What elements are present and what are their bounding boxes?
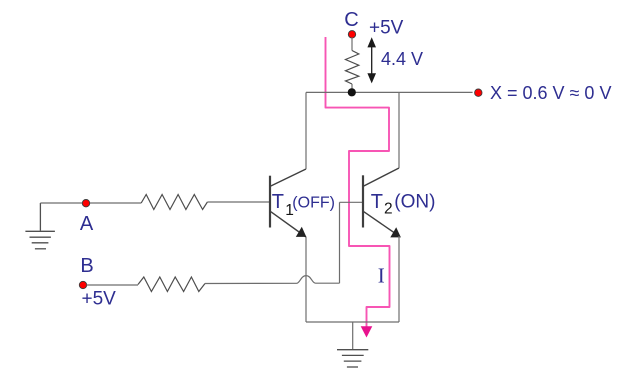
wire emitter rail bottom	[306, 321, 399, 323]
svg-text:B: B	[80, 255, 93, 277]
svg-text:T: T	[371, 191, 383, 213]
transistor T2 emitter arrow	[390, 227, 401, 237]
current arrow magenta into ground	[361, 326, 373, 337]
wire RB toward T2 base with hop over T1 emitter	[205, 276, 340, 284]
resistor RA	[141, 195, 207, 210]
resistor RC	[346, 51, 359, 85]
wire T1 collector vertical	[305, 92, 307, 169]
svg-text:I: I	[378, 264, 385, 288]
wire T2 collector vertical	[398, 92, 400, 168]
wire C to resistor RC	[351, 38, 353, 51]
wire ground stem bottom	[352, 322, 354, 349]
node A	[82, 200, 89, 207]
wire vertical up to T2 base	[339, 202, 341, 283]
svg-text:X = 0.6 V ≈ 0 V: X = 0.6 V ≈ 0 V	[490, 83, 611, 103]
wire pink current path from +5V through T2 to ground	[326, 37, 390, 330]
transistor T2 emitter diagonal	[364, 212, 399, 236]
svg-text:A: A	[80, 213, 94, 235]
wire T2 emitter vertical	[398, 236, 400, 322]
ground left	[25, 203, 55, 249]
node X	[475, 89, 482, 96]
transistor T2 collector diagonal	[364, 168, 399, 186]
svg-text:2: 2	[384, 201, 393, 218]
wire RA to T1 base	[207, 201, 269, 203]
node C	[348, 31, 355, 38]
svg-text:+5V: +5V	[82, 289, 117, 310]
wire RC to node X rail	[351, 84, 353, 92]
node B	[79, 281, 86, 288]
svg-text:4.4 V: 4.4 V	[381, 49, 423, 69]
svg-text:+5V: +5V	[369, 18, 404, 39]
transistor T1 base bar	[269, 176, 271, 228]
svg-text:C: C	[344, 9, 358, 31]
transistor T1 collector diagonal	[271, 169, 306, 186]
transistor T2 base bar	[362, 175, 364, 227]
wire T1 emitter vertical	[305, 237, 307, 322]
wire to T2 base bar	[340, 201, 363, 203]
voltage arrow 4.4V double-headed	[367, 37, 376, 83]
transistor T1 emitter arrow	[296, 227, 307, 237]
junction dot at resistor and rail	[348, 88, 356, 96]
svg-text:(ON): (ON)	[394, 192, 435, 213]
transistor T1 emitter diagonal	[271, 212, 306, 237]
ground bottom	[337, 350, 368, 367]
wire input A	[40, 202, 141, 204]
wire output rail	[306, 91, 473, 93]
svg-text:T: T	[272, 191, 284, 213]
wire B to resistor	[87, 284, 139, 286]
svg-text:(OFF): (OFF)	[292, 194, 335, 211]
resistor RB	[138, 277, 205, 292]
